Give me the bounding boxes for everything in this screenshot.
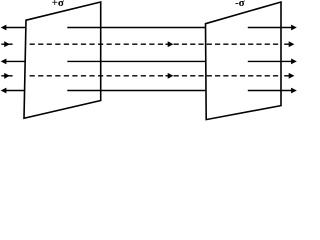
svg-text:-σ: -σ (235, 0, 245, 9)
arrowhead row2 middle (points right) (168, 41, 174, 47)
arrowhead row3 right (points right) (291, 59, 297, 65)
plate P2 (−σ) (206, 2, 282, 120)
plate P1 (+σ) (24, 2, 101, 118)
wire row4 dashes a (30, 75, 163, 77)
arrowhead row2 left (points right) (4, 41, 10, 47)
wire row2 left arrow (1, 43, 12, 45)
svg-text:+σ: +σ (52, 0, 64, 9)
wire row1 left (6, 27, 26, 29)
wire row1 right (248, 27, 292, 29)
wire row5 right (248, 90, 292, 92)
wire row1 middle (67, 27, 206, 29)
wire row2 dashes a (30, 43, 163, 45)
arrowhead row4 left (points right) (4, 73, 10, 79)
wire row3 left (6, 60, 25, 62)
field line row 1 (solid, y=27.5) (1, 25, 297, 31)
arrowhead row2 right (points right) (289, 41, 295, 47)
wire row4 dashes b (174, 75, 279, 77)
field line row 4 (dashed, y=75.8) (1, 73, 294, 79)
arrowhead row3 left (points left) (1, 59, 7, 65)
wire row5 left (6, 90, 25, 92)
arrowhead row5 right (points right) (291, 88, 297, 94)
arrowhead row4 middle (points right) (168, 73, 174, 79)
field line row 2 (dashed, y=44.2) (1, 41, 294, 47)
field line row 5 (solid, y=90.5) (1, 88, 297, 94)
wire row2 mid arrow (166, 43, 169, 45)
field line row 3 (solid, y=61.4) (1, 59, 297, 65)
arrowhead row1 left (points left) (1, 25, 7, 31)
arrowhead row5 left (points left) (1, 88, 7, 94)
wire row3 middle (67, 60, 206, 62)
wire row4 mid arrow (166, 75, 169, 77)
wire row2 dashes b (174, 43, 279, 45)
wire row4 left arrow (1, 75, 12, 77)
arrowhead row1 right (points right) (291, 25, 297, 31)
wire row3 right (248, 60, 292, 62)
arrowhead row4 right (points right) (289, 73, 295, 79)
wire row2 right arrow (284, 43, 289, 45)
wire row5 middle (67, 90, 206, 92)
wire row4 right arrow (284, 75, 289, 77)
